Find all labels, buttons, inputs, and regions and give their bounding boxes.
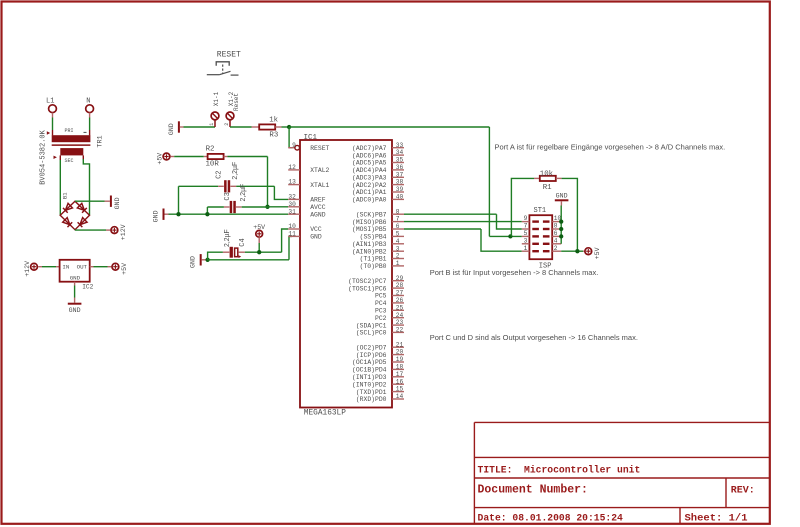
svg-text:15: 15 <box>396 386 404 393</box>
wire up to VCC pin <box>282 229 289 252</box>
svg-text:24: 24 <box>396 312 404 319</box>
svg-text:25: 25 <box>396 304 404 311</box>
svg-text:27: 27 <box>396 290 404 297</box>
svg-text:BV054-5382.0K: BV054-5382.0K <box>39 129 47 184</box>
wire C3 left down to gnd rail <box>206 207 208 214</box>
wire IC2 OUT to +5V <box>90 266 112 268</box>
svg-text:9: 9 <box>292 142 296 149</box>
supply +5V at R2 <box>156 153 170 165</box>
bridge rectifier B1 <box>60 192 89 230</box>
pin 13 XTAL1 <box>288 179 329 189</box>
pin 26 PC4 <box>375 297 404 307</box>
svg-text:5: 5 <box>396 231 400 238</box>
junction ST1 pin 8 <box>559 227 563 231</box>
svg-text:(ADC2)PA2: (ADC2)PA2 <box>352 182 387 189</box>
svg-text:11: 11 <box>288 231 296 238</box>
svg-text:1k: 1k <box>269 117 278 125</box>
ground symbol analog rail <box>153 209 164 223</box>
svg-text:17: 17 <box>396 371 404 378</box>
svg-text:PC5: PC5 <box>375 293 387 300</box>
svg-text:(MOSI)PB5: (MOSI)PB5 <box>352 226 387 233</box>
svg-text:10k: 10k <box>540 170 554 178</box>
svg-text:GND: GND <box>69 307 81 314</box>
svg-text:2,2µF: 2,2µF <box>240 184 247 202</box>
svg-text:AVCC: AVCC <box>310 204 326 211</box>
wire junction to AVCC pin <box>268 206 289 208</box>
ground symbol below IC2 <box>68 304 82 314</box>
svg-text:R1: R1 <box>543 184 552 192</box>
svg-text:XTAL2: XTAL2 <box>310 167 329 174</box>
svg-text:(ADC1)PA1: (ADC1)PA1 <box>352 189 387 196</box>
pin 37 (ADC3)PA3 <box>352 171 404 181</box>
pin 9 RESET <box>288 142 329 152</box>
svg-text:14: 14 <box>396 393 404 400</box>
svg-text:20: 20 <box>396 349 404 356</box>
pin 30 AVCC <box>288 201 326 211</box>
svg-text:(ICP)PD6: (ICP)PD6 <box>356 352 387 359</box>
wire N to TR1 primary <box>89 113 91 136</box>
junction reset pull-up <box>508 234 512 238</box>
stub +5V ST1 <box>583 250 585 252</box>
svg-text:1: 1 <box>396 260 400 267</box>
svg-text:XTAL1: XTAL1 <box>310 182 329 189</box>
wire gnd rail to AGND pin <box>165 213 289 215</box>
svg-text:GND: GND <box>153 210 160 222</box>
svg-text:PC3: PC3 <box>375 308 387 315</box>
supply +5V at VCC <box>253 224 265 237</box>
pin 7 (MISO)PB6 <box>352 216 404 226</box>
svg-text:B1: B1 <box>62 192 69 199</box>
svg-text:+5V: +5V <box>594 247 601 259</box>
ground symbol at bridge <box>111 196 121 210</box>
svg-text:35: 35 <box>396 157 404 164</box>
wire C2 left <box>179 185 224 187</box>
svg-text:L1: L1 <box>46 97 54 105</box>
title block REV text <box>731 485 755 496</box>
wire GND to X1-1 <box>180 126 215 128</box>
svg-text:GND: GND <box>556 193 568 200</box>
svg-text:28: 28 <box>396 282 404 289</box>
transformer TR1 value BV054-5382.0K <box>39 128 104 185</box>
svg-text:34: 34 <box>396 149 404 156</box>
svg-text:36: 36 <box>396 164 404 171</box>
wire SCK to ST1 pin 7 <box>404 214 522 229</box>
pin 3 (AIN0)PB2 <box>352 245 404 255</box>
label MEGA163LP <box>304 410 346 418</box>
pin 15 (TXD)PD1 <box>356 386 404 396</box>
svg-text:(T1)PB1: (T1)PB1 <box>360 256 387 263</box>
wire +12V to IC2 IN <box>38 266 59 268</box>
svg-text:Date: 08.01.2008 20:15:24: Date: 08.01.2008 20:15:24 <box>478 512 624 523</box>
svg-text:GND: GND <box>114 197 121 209</box>
wire R1 to +5V net <box>556 178 578 251</box>
terminal L1 <box>46 97 56 112</box>
pin 5 (SS)PB4 <box>360 231 404 241</box>
pin 39 (ADC1)PA1 <box>352 186 404 196</box>
svg-text:REV:: REV: <box>731 485 755 496</box>
svg-text:7: 7 <box>396 216 400 223</box>
svg-text:SEC: SEC <box>65 158 74 164</box>
svg-text:22: 22 <box>396 327 404 334</box>
svg-text:IC1: IC1 <box>304 134 318 142</box>
svg-text:MEGA163LP: MEGA163LP <box>304 410 346 418</box>
svg-text:3: 3 <box>396 245 400 252</box>
svg-text:26: 26 <box>396 297 404 304</box>
wire C3 left <box>207 206 229 208</box>
svg-text:8: 8 <box>554 223 558 230</box>
svg-text:X1-1: X1-1 <box>213 91 220 106</box>
wire C2 right <box>230 185 274 187</box>
svg-text:1: 1 <box>524 245 528 252</box>
supply +12V at bridge <box>111 224 127 240</box>
capacitor C3 2.2uF <box>224 184 247 213</box>
pushbutton RESET <box>207 51 241 76</box>
wire gnd to C4 minus <box>208 252 230 260</box>
svg-text:GND: GND <box>168 123 175 135</box>
wire reset net down to ST1 pin 5 <box>489 127 521 236</box>
svg-text:(ADC7)PA7: (ADC7)PA7 <box>352 145 387 152</box>
svg-text:23: 23 <box>396 319 404 326</box>
svg-text:(SDA)PC1: (SDA)PC1 <box>356 322 387 329</box>
junction +5V pull-up <box>575 249 579 253</box>
svg-text:PRI: PRI <box>65 128 74 134</box>
wire TR1 secondary right to bridge <box>83 155 89 215</box>
svg-text:Port A ist für regelbare Eingä: Port A ist für regelbare Eingänge vorges… <box>495 143 726 152</box>
svg-text:39: 39 <box>396 186 404 193</box>
wire R2 down to AVCC <box>267 157 269 207</box>
svg-text:(T0)PB0: (T0)PB0 <box>360 263 387 270</box>
svg-text:ST1: ST1 <box>534 207 547 215</box>
pad X1-1 <box>209 91 220 127</box>
svg-text:GND: GND <box>70 274 81 281</box>
svg-text:C4: C4 <box>239 238 247 246</box>
ground symbol above ST1 <box>555 193 569 201</box>
wire gnd stub C4 <box>202 259 208 261</box>
connector ST1 ISP <box>522 207 562 270</box>
svg-text:(TOSC1)PC6: (TOSC1)PC6 <box>348 285 387 292</box>
junction AVCC <box>265 205 269 209</box>
pin 17 (INT1)PD3 <box>352 371 404 381</box>
svg-text:+5V: +5V <box>156 153 163 165</box>
capacitor C2 2.2uF <box>216 162 239 193</box>
pin 18 (OC1B)PD4 <box>352 364 404 374</box>
svg-text:RESET: RESET <box>217 51 241 60</box>
pin 27 PC5 <box>375 290 404 300</box>
pin 35 (ADC5)PA5 <box>352 157 404 167</box>
note port B <box>430 268 599 277</box>
svg-text:(TXD)PD1: (TXD)PD1 <box>356 389 387 396</box>
pin 25 PC3 <box>375 304 404 314</box>
title block Sheet text <box>685 512 748 524</box>
svg-text:R3: R3 <box>269 131 278 139</box>
svg-text:PC2: PC2 <box>375 315 387 322</box>
svg-text:VCC: VCC <box>310 226 322 233</box>
pin 32 AREF <box>288 194 326 204</box>
svg-text:R2: R2 <box>206 146 215 154</box>
svg-text:3: 3 <box>524 237 528 244</box>
junction ST1 pin 10 <box>559 219 563 223</box>
svg-text:2: 2 <box>554 245 558 252</box>
svg-text:TR1: TR1 <box>97 135 105 147</box>
svg-text:7: 7 <box>524 223 528 230</box>
pin 16 (INT0)PD2 <box>352 378 404 388</box>
svg-text:+12V: +12V <box>24 261 31 277</box>
note port A <box>495 143 726 152</box>
svg-text:(TOSC2)PC7: (TOSC2)PC7 <box>348 278 387 285</box>
svg-text:(OC1B)PD4: (OC1B)PD4 <box>352 367 387 374</box>
svg-text:Sheet: 1/1: Sheet: 1/1 <box>685 512 748 524</box>
supply +5V at regulator output <box>112 263 128 275</box>
wire reset to R1 <box>511 178 539 236</box>
capacitor C4 2.2uF polarized <box>224 229 247 258</box>
resistor R3 1k <box>259 117 278 140</box>
svg-text:RESET: RESET <box>310 145 329 152</box>
svg-text:6: 6 <box>554 230 558 237</box>
wire C3 right to AVCC junction <box>236 206 268 208</box>
wire junction to IC1 RESET pin <box>289 127 292 148</box>
pin 12 XTAL2 <box>288 164 329 174</box>
svg-text:IC2: IC2 <box>82 283 93 290</box>
svg-text:AGND: AGND <box>310 211 326 218</box>
svg-text:IN: IN <box>62 263 69 270</box>
wire gnd to GND pin <box>208 236 292 259</box>
voltage regulator IC2 <box>60 260 94 291</box>
wire C2 to AREF pin <box>274 186 288 199</box>
svg-text:31: 31 <box>288 208 296 215</box>
wire MISO to ST1 pin 9 <box>404 221 522 223</box>
wire MOSI to ST1 pin 1 <box>404 229 522 251</box>
svg-text:10: 10 <box>288 223 296 230</box>
title block Document Number text <box>478 483 588 496</box>
pin 19 (OC1A)PD5 <box>352 356 404 366</box>
wire IC2 GND pin down <box>74 282 76 303</box>
wire bridge to GND <box>75 200 110 202</box>
resistor R1 10k <box>540 170 556 192</box>
svg-text:(ADC3)PA3: (ADC3)PA3 <box>352 175 387 182</box>
pin 21 (OC2)PD7 <box>356 341 404 351</box>
pin 34 (ADC6)PA6 <box>352 149 404 159</box>
junction C3 gnd <box>205 212 209 216</box>
svg-text:(SCL)PC0: (SCL)PC0 <box>356 330 387 337</box>
wire TR1 secondary left to bridge <box>59 155 61 215</box>
svg-text:4: 4 <box>554 237 558 244</box>
op IC1 body <box>300 140 392 408</box>
svg-text:(ADC0)PA0: (ADC0)PA0 <box>352 197 387 204</box>
wire L1 to TR1 primary <box>52 113 54 136</box>
pin 33 (ADC7)PA7 <box>352 142 404 152</box>
svg-text:40: 40 <box>396 194 404 201</box>
pin 28 (TOSC1)PC6 <box>348 282 404 292</box>
svg-text:(SS)PB4: (SS)PB4 <box>360 234 387 241</box>
junction C2 gnd <box>176 212 180 216</box>
ground symbol at X1-1 <box>168 121 179 135</box>
junction VCC net <box>257 250 261 254</box>
wire C4 plus to VCC <box>238 251 281 253</box>
pin 24 PC2 <box>375 312 404 322</box>
pin 14 (RXD)PD0 <box>356 393 404 403</box>
svg-text:+5V: +5V <box>253 224 265 231</box>
svg-text:+5V: +5V <box>121 263 128 275</box>
wire +5V down <box>258 237 260 252</box>
label IC1 <box>304 134 318 142</box>
wire gnd to ST1 even pins <box>560 201 562 244</box>
svg-text:(ADC4)PA4: (ADC4)PA4 <box>352 167 387 174</box>
pin 10 VCC <box>288 223 322 233</box>
svg-text:38: 38 <box>396 179 404 186</box>
svg-text:C3: C3 <box>224 192 232 200</box>
supply +12V at regulator input <box>24 261 38 277</box>
svg-text:Document Number:: Document Number: <box>478 483 588 496</box>
svg-text:1: 1 <box>209 123 215 126</box>
svg-text:21: 21 <box>396 341 404 348</box>
svg-text:13: 13 <box>288 179 296 186</box>
pin 20 (ICP)PD6 <box>356 349 404 359</box>
pin 22 (SCL)PC0 <box>356 327 404 337</box>
pin 40 (ADC0)PA0 <box>352 194 404 204</box>
wire ST1 pin 2 to +5V <box>561 250 583 252</box>
svg-text:(INT1)PD3: (INT1)PD3 <box>352 374 387 381</box>
svg-text:2: 2 <box>396 253 400 260</box>
title block TITLE text <box>478 465 641 476</box>
svg-text:PC4: PC4 <box>375 300 387 307</box>
terminal N <box>86 97 94 112</box>
pin 31 AGND <box>288 208 326 218</box>
svg-text:Port C und D sind als Output v: Port C und D sind als Output vorgesehen … <box>430 333 638 342</box>
svg-text:19: 19 <box>396 356 404 363</box>
svg-text:(ADC6)PA6: (ADC6)PA6 <box>352 152 387 159</box>
svg-text:(AIN0)PB2: (AIN0)PB2 <box>352 248 387 255</box>
svg-text:18: 18 <box>396 364 404 371</box>
wire R3 to junction <box>275 126 289 128</box>
wire C2 left down to gnd rail <box>178 186 180 214</box>
wire R2 right <box>224 156 268 158</box>
svg-text:4: 4 <box>396 238 400 245</box>
svg-text:AREF: AREF <box>310 197 326 204</box>
supply +5V at ST1 <box>585 247 601 259</box>
junction reset net <box>287 125 291 129</box>
svg-text:+12V: +12V <box>120 224 127 240</box>
svg-text:12: 12 <box>288 164 296 171</box>
svg-text:(ADC5)PA5: (ADC5)PA5 <box>352 160 387 167</box>
svg-text:(INT0)PD2: (INT0)PD2 <box>352 381 387 388</box>
svg-text:(MISO)PB6: (MISO)PB6 <box>352 219 387 226</box>
svg-text:2: 2 <box>224 123 230 126</box>
svg-text:GND: GND <box>310 234 322 241</box>
svg-text:N: N <box>86 97 90 105</box>
svg-text:Port B ist für Input vorgesehe: Port B ist für Input vorgesehen -> 8 Cha… <box>430 268 599 277</box>
svg-text:(RXD)PD0: (RXD)PD0 <box>356 396 387 403</box>
svg-text:10R: 10R <box>206 161 220 169</box>
svg-text:2,2µF: 2,2µF <box>232 162 239 180</box>
pin 6 (MOSI)PB5 <box>352 223 404 233</box>
pin 23 (SDA)PC1 <box>356 319 404 329</box>
svg-text:8: 8 <box>396 208 400 215</box>
resistor R2 10R <box>206 146 224 169</box>
svg-text:33: 33 <box>396 142 404 149</box>
pin 2 (T1)PB1 <box>360 253 404 263</box>
note port C and D <box>430 333 638 342</box>
wire X1-2 to R3 <box>230 126 259 128</box>
pin 38 (ADC2)PA2 <box>352 179 404 189</box>
svg-text:(OC2)PD7: (OC2)PD7 <box>356 344 387 351</box>
svg-text:29: 29 <box>396 275 404 282</box>
svg-text:(AIN1)PB3: (AIN1)PB3 <box>352 241 387 248</box>
svg-text:32: 32 <box>288 194 296 201</box>
svg-text:30: 30 <box>288 201 296 208</box>
pad X1-2 Reset <box>224 91 240 127</box>
svg-text:37: 37 <box>396 171 404 178</box>
svg-text:16: 16 <box>396 378 404 385</box>
svg-text:6: 6 <box>396 223 400 230</box>
title block outline <box>474 422 770 523</box>
pin 11 GND <box>288 231 322 241</box>
svg-text:OUT: OUT <box>77 263 88 270</box>
wire +5V to R2 <box>170 156 207 158</box>
svg-text:(SCK)PB7: (SCK)PB7 <box>356 211 387 218</box>
junction C4 gnd <box>205 258 209 262</box>
svg-text:TITLE: Microcontroller unit: TITLE: Microcontroller unit <box>478 465 641 476</box>
svg-text:C2: C2 <box>216 170 224 178</box>
wire bridge to +12V <box>75 229 110 231</box>
pin 4 (AIN1)PB3 <box>352 238 404 248</box>
svg-text:Reset: Reset <box>233 93 240 111</box>
pin 36 (ADC4)PA4 <box>352 164 404 174</box>
svg-text:5: 5 <box>524 230 528 237</box>
svg-text:(OC1A)PD5: (OC1A)PD5 <box>352 359 387 366</box>
pin 1 (T0)PB0 <box>360 260 404 270</box>
pin 29 (TOSC2)PC7 <box>348 275 404 285</box>
svg-text:GND: GND <box>190 256 197 268</box>
svg-text:9: 9 <box>524 215 528 222</box>
ground symbol at C4 <box>190 254 201 268</box>
title block Date text <box>478 512 624 523</box>
junction ST1 pin 6 <box>559 234 563 238</box>
pin 8 (SCK)PB7 <box>356 208 404 218</box>
svg-text:2,2µF: 2,2µF <box>224 229 231 247</box>
wire reset net to ISP <box>289 126 489 128</box>
